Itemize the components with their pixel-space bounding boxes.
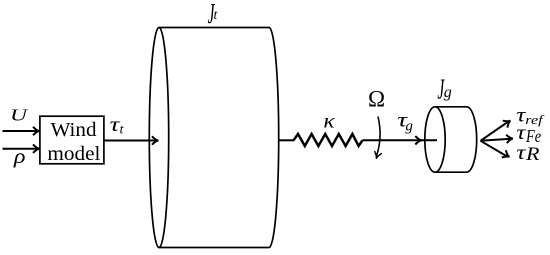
wind model text (47, 119, 100, 165)
Omega label (368, 86, 385, 111)
svg-text:t: t (120, 122, 125, 137)
svg-text:g: g (405, 119, 413, 135)
kappa label (323, 108, 335, 132)
svg-text:Fe: Fe (525, 126, 541, 146)
J_g label (437, 73, 451, 104)
shaft arrow tau_t into turbine (104, 136, 159, 144)
svg-text:model: model (47, 143, 100, 165)
input arrow U (3, 127, 40, 135)
svg-text:ρ: ρ (13, 144, 26, 168)
tau_Fe label (516, 120, 541, 146)
tau_g label (397, 108, 413, 135)
svg-text:U: U (10, 106, 29, 125)
svg-text:t: t (214, 7, 219, 22)
shaft arrow tau_g into generator (363, 136, 438, 144)
input arrow rho (3, 145, 40, 153)
tau_R label (516, 140, 539, 165)
rotation direction arc Omega (375, 117, 382, 159)
shaft segment turbine to spring (278, 139, 294, 141)
output arrow tau_R (481, 141, 510, 158)
turbine inertia cylinder J_t (149, 28, 278, 248)
svg-text:Wind: Wind (51, 119, 97, 141)
svg-text:Ω: Ω (368, 86, 385, 111)
wind model box (40, 116, 104, 164)
tau_ref label (516, 102, 545, 127)
svg-text:ref: ref (525, 112, 545, 127)
J_t label (208, 0, 219, 29)
input U label (10, 106, 29, 125)
generator inertia cylinder J_g (425, 107, 477, 172)
torque tau_t label (110, 112, 125, 136)
output arrow tau_Fe (481, 135, 514, 143)
output arrow tau_ref (481, 121, 511, 141)
svg-text:R: R (525, 145, 540, 165)
svg-text:g: g (444, 84, 452, 101)
svg-text:κ: κ (323, 108, 335, 132)
input rho label (13, 144, 26, 168)
spring kappa (drive-train stiffness) (294, 134, 363, 146)
